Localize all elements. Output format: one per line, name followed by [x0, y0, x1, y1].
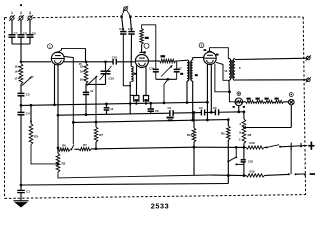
wire R16 bottom lead: [193, 142, 195, 175]
inductor output transformer primary: [229, 59, 231, 81]
svg-text:B: B: [239, 131, 241, 135]
resistor R15 value label blob: [275, 98, 279, 100]
wire C10 to R4: [86, 83, 106, 85]
svg-text:C8: C8: [155, 109, 159, 113]
tube V1 (RF amplifier): [51, 52, 64, 65]
resistor R12 value label blob: [247, 98, 251, 100]
node junction C14/bus2: [85, 113, 88, 116]
node switch S1 contact b: [279, 146, 281, 148]
node junction primary bottom/right leg: [228, 90, 231, 93]
capacitor C22 (smoothing): [241, 159, 246, 161]
node junction V3 middle leg/bus2: [210, 111, 213, 114]
resistor R10 grid resistor: [140, 28, 144, 44]
wire terminal 3 to C9: [29, 20, 31, 34]
capacitor C8: [18, 34, 25, 36]
node junction phono/coil merge: [129, 85, 131, 87]
svg-text:R9: R9: [221, 132, 225, 136]
capacitor C6 (series): [214, 109, 216, 115]
inductor IF transformer T1 secondary: [191, 60, 193, 81]
wire R1 wiper arm: [22, 78, 31, 86]
tube V3 (output): [204, 52, 217, 65]
svg-text:14: 14: [90, 89, 93, 93]
wire C11 link: [129, 104, 131, 114]
wire terminal 1 to C7: [11, 20, 13, 34]
svg-text:17: 17: [14, 77, 18, 81]
wire plate line from V1: [64, 61, 113, 63]
wire negative rail segment c: [296, 173, 305, 175]
wire V2 leg right: [145, 66, 147, 96]
wire padder box bottom: [156, 78, 177, 80]
capacitor C13: [104, 107, 110, 109]
svg-text:R8: R8: [248, 133, 252, 137]
wire C8 down: [20, 37, 22, 44]
resistor R4 tuning potentiometer: [84, 64, 88, 84]
capacitor C1: [17, 189, 25, 191]
wire phono jack right prong: [127, 10, 130, 16]
node switch S2 contact a: [288, 173, 290, 175]
wire T1 secondary top lead: [193, 57, 205, 60]
wire terminal 2 to C8: [20, 20, 22, 34]
capacitor C19 (padder left): [155, 61, 157, 69]
wire lamp down: [290, 105, 292, 128]
svg-text:S: S: [239, 66, 241, 70]
svg-text:C18: C18: [112, 55, 117, 59]
svg-text:C6: C6: [213, 106, 217, 110]
wire padder box bottom stub: [164, 79, 168, 103]
node heater switch contact: [70, 148, 72, 150]
wire bus 2 middle segment: [173, 112, 201, 114]
capacitor C10 (variable): [101, 70, 111, 72]
node diode designator circle: [237, 92, 241, 96]
node terminal 3 (earth socket): [28, 16, 32, 20]
wire R10 to V2 top cap: [141, 44, 143, 52]
node phono jack symbol: [124, 7, 128, 11]
resistor R11 value label blob: [161, 55, 166, 57]
svg-text:R7: R7: [83, 143, 87, 147]
node junction padder bottom: [167, 78, 170, 81]
wire R1 to C2: [20, 84, 22, 93]
resistor R2: [56, 154, 60, 173]
resistor R16: [192, 128, 196, 142]
node R4 wiper contact: [96, 76, 98, 78]
resistor R19 negative lead: [246, 174, 265, 177]
node switch S2 contact c: [304, 174, 306, 176]
wire R4 wiper arm: [87, 77, 97, 86]
capacitor C16: [120, 31, 126, 33]
svg-text:C9: C9: [32, 31, 36, 35]
svg-text:R2: R2: [62, 162, 66, 166]
node junction V1 leg/heater bus: [57, 147, 60, 150]
wire chassis shield border (dashed, right side): [303, 17, 305, 195]
resistor R6 bracket: [143, 96, 148, 102]
wire bus 2 right segment: [219, 111, 244, 113]
wire C22 top feed: [243, 147, 245, 159]
svg-text:A: A: [239, 122, 241, 126]
wire C9 down: [29, 37, 31, 44]
wire bus 2 segment: [205, 111, 216, 113]
node junction R8 top: [243, 110, 246, 113]
capacitor C5 (series): [200, 110, 202, 116]
wire V2 anode to padder box: [149, 60, 156, 62]
wire T1 core left: [188, 62, 190, 80]
wire V3 cathode to transformer bottom: [216, 62, 229, 80]
node V3 label blob left: [204, 49, 207, 51]
wire C17 down to oscillator coil: [130, 34, 132, 66]
resistor R13: [255, 100, 265, 103]
svg-text:R16: R16: [187, 133, 193, 137]
svg-text:R3: R3: [34, 135, 38, 139]
wire phono jack left prong: [122, 10, 125, 16]
wire output transformer core: [230, 60, 232, 79]
svg-text:2533: 2533: [151, 202, 169, 211]
wire C13 top stub: [106, 104, 108, 108]
wire positive rail to switch: [264, 146, 266, 148]
wire speaker line top: [235, 58, 308, 59]
capacitor C2: [18, 92, 25, 94]
wire heater bus segment b: [91, 147, 194, 149]
wire V3 top cap lead: [210, 48, 229, 59]
wire R8 bottom lead: [243, 144, 245, 148]
wire C10 top stub: [105, 62, 107, 71]
wire R8 top lead: [243, 112, 245, 119]
wire chassis shield border (dashed, top-left segment): [5, 17, 9, 19]
wire R7 top lead: [95, 122, 97, 127]
node V1 designator circle: [48, 44, 53, 49]
node V2 grid cap designator circle: [144, 43, 149, 48]
node V2 top cap: [140, 51, 144, 53]
svg-text:C10: C10: [109, 77, 115, 81]
wire C12 top stub: [150, 103, 152, 109]
wire chain to lamp: [284, 101, 289, 103]
wire V3 right leg to diode line: [215, 64, 230, 92]
wire V3 left leg: [206, 64, 208, 120]
wire inter-rail link: [290, 147, 292, 174]
node speaker terminal bottom: [307, 78, 311, 82]
node junction C22/negative rail: [243, 174, 246, 177]
resistor R18 positive lead: [246, 146, 264, 149]
capacitor C4: [18, 111, 25, 113]
wire top-cap feed down: [85, 48, 87, 61]
node junction R9 top: [227, 118, 230, 121]
wire switch S3 arm: [228, 158, 235, 162]
wire grid node to V1: [21, 61, 51, 63]
capacitor C21 (padder right): [176, 61, 178, 69]
wire V1 heater leg: [57, 64, 59, 154]
node junction C11 hang: [129, 102, 132, 105]
wire V1 cathode leg: [54, 64, 56, 105]
wire output transformer top link: [227, 58, 230, 60]
node aerial dot above terminal 2: [20, 4, 22, 6]
resistor R14 value label blob: [265, 98, 269, 100]
wire V2 leg left: [136, 66, 138, 96]
node junction R16/heater bus: [193, 146, 196, 149]
wire R16 top lead: [193, 113, 195, 129]
wire C2 to AVC bus: [20, 96, 22, 106]
inductor T1 winding label 10: [180, 73, 183, 75]
resistor R17 heater dropper: [79, 148, 91, 151]
wire T1 core right: [190, 62, 192, 80]
svg-text:12: 12: [110, 107, 113, 111]
wire output transformer primary bottom: [228, 80, 230, 92]
wire padder trimmer arrow: [161, 66, 172, 77]
wire chassis shield border (dashed, bottom side): [5, 195, 306, 199]
node junction V1 leg/AVC bus: [53, 103, 56, 106]
node R1 wiper contact: [30, 77, 32, 79]
node battery negative symbol: [310, 173, 315, 175]
svg-text:R19: R19: [250, 169, 255, 173]
wire tap line to C22 lead: [236, 163, 244, 165]
resistor R7: [94, 127, 98, 142]
resistor R10 top lead: [142, 25, 156, 61]
inductor L2 label blob: [134, 73, 137, 75]
wire C12 bottom stub: [150, 111, 152, 113]
wire R5 foot lead: [135, 102, 137, 104]
node switch S3 contact: [235, 156, 237, 158]
wire switch S1 arm: [267, 145, 279, 148]
capacitor C3 (series): [169, 110, 171, 116]
node terminal 2 (aerial socket): [19, 16, 23, 20]
svg-text:C22: C22: [248, 159, 253, 163]
capacitor C14: [83, 91, 89, 93]
node speaker terminal top: [307, 56, 311, 60]
resistor R8: [242, 119, 246, 144]
svg-text:C: C: [239, 137, 241, 141]
wire C14 down: [85, 95, 87, 115]
node junction R16 top: [193, 111, 196, 114]
wire chassis shield border (dashed, left side): [4, 18, 6, 199]
inductor output transformer secondary: [233, 59, 235, 81]
svg-text:R7: R7: [99, 133, 103, 137]
resistor R14: [265, 100, 275, 103]
node R3 upper contact: [30, 120, 32, 122]
wire padder box top-left: [156, 60, 160, 62]
wire negative rail segment: [265, 174, 289, 175]
tube V4 detector diode: [235, 98, 243, 106]
wire C16 down then right: [123, 34, 130, 85]
wire C10 trimmer arrow: [100, 66, 112, 80]
capacitor C12: [148, 108, 154, 110]
node junction plate line/padder: [85, 60, 88, 63]
wire V1 top cap lead: [58, 48, 86, 52]
node junction C13 top: [105, 103, 108, 106]
resistor R6 label blob: [144, 99, 148, 101]
resistor R11: [160, 59, 176, 63]
svg-text:R18: R18: [250, 141, 255, 145]
wire R8 tap arrow: [243, 126, 246, 128]
node junction diode drop: [237, 111, 240, 114]
wire R4 bottom: [85, 84, 87, 93]
resistor R10 value label blob: [145, 37, 149, 39]
wire diode left feed: [229, 92, 235, 102]
node battery positive symbol: [308, 145, 314, 147]
capacitor C18 (series): [112, 59, 114, 65]
wire heater bus to positive rail: [194, 146, 246, 148]
resistor R1 volume potentiometer: [19, 64, 23, 85]
wire R6 foot lead: [145, 102, 147, 104]
svg-text:C19: C19: [149, 66, 154, 70]
wire heater bus segment a: [75, 148, 80, 150]
resistor R6a heater dropper: [59, 148, 71, 151]
node AVC annotation blob line1: [167, 117, 174, 119]
wire C4 down to ground bus: [20, 115, 22, 185]
wire AVC bus: [21, 102, 207, 105]
svg-text:15: 15: [14, 65, 18, 69]
svg-text:R6: R6: [62, 144, 66, 148]
svg-text:C2: C2: [26, 92, 30, 96]
node junction padder/AVC bus: [163, 102, 166, 105]
wire T1 primary bottom lead: [186, 81, 188, 103]
capacitor C17: [128, 31, 134, 33]
node phono terminal left: [120, 16, 122, 18]
wire V1 anode line and wave-switch feed: [64, 56, 73, 144]
node junction C10 top: [104, 60, 107, 63]
node junction R3 top on AVC bus: [30, 104, 33, 107]
wire ground bus: [21, 184, 228, 186]
wire T1 primary top lead: [177, 59, 187, 62]
wire V3 middle leg: [210, 64, 212, 112]
svg-text:19: 19: [80, 70, 84, 74]
svg-text:C8: C8: [23, 31, 27, 35]
wire R2 bottom corner: [58, 172, 212, 178]
node junction AVC bus left end: [20, 104, 23, 107]
resistor R5 bracket: [134, 96, 139, 102]
ground symbol: [14, 200, 29, 202]
lamp LP1 dial lamp: [289, 99, 295, 105]
resistor R13 value label blob: [256, 98, 260, 100]
wire wiper feed down: [95, 77, 97, 123]
wire chassis shield border (dashed, top middle segment): [33, 17, 118, 18]
resistor R9: [227, 126, 231, 140]
node switch S3 pivot: [227, 160, 229, 162]
node junction ground bus left: [20, 184, 23, 187]
svg-text:18: 18: [80, 65, 84, 69]
wire bus 2 (detector line): [58, 113, 170, 115]
node switch S2 contact b: [295, 173, 297, 175]
node tap contact on C22 lead: [235, 163, 237, 165]
node junction V3 leg/bus3: [206, 119, 209, 122]
wire diode to resistor chain: [243, 101, 246, 103]
node phono terminal right: [129, 16, 131, 18]
wire lamp return to R8 tap: [247, 127, 292, 129]
wire plate line to V2 grid: [116, 61, 135, 63]
node battery link tick top: [290, 143, 292, 151]
node V1 top cap: [56, 52, 60, 54]
wire diode bottom lead: [238, 106, 240, 112]
capacitor C9: [27, 34, 34, 36]
node junction T1/AVC bus: [186, 101, 189, 104]
node V2 top cap junction blob: [143, 51, 146, 54]
svg-text:16: 16: [14, 70, 18, 74]
node junction R3/R2 tap: [56, 163, 59, 166]
node junction bus3 left end: [72, 121, 75, 124]
node junction R9/negative rail: [227, 174, 230, 177]
svg-text:2: 2: [20, 11, 22, 15]
node junction R7/heater bus: [95, 147, 98, 150]
inductor T1 winding label 11: [195, 74, 198, 76]
node junction S3/positive rail: [235, 146, 238, 149]
inductor IF transformer T1 primary: [187, 60, 189, 81]
wire aerial join to grid node: [20, 44, 22, 62]
wire C22 bottom lead: [243, 162, 245, 176]
wire bus 3 (grid return): [73, 120, 228, 123]
node V3 designator circle: [199, 43, 204, 48]
node junction R8/positive rail: [243, 146, 246, 149]
wire T1 secondary bottom lead: [192, 81, 194, 120]
node junction V1 leg/bus2: [57, 114, 60, 117]
wire C10 bottom stub: [105, 74, 107, 85]
node switch S1 contact a: [266, 146, 268, 148]
node junction T1/bus3: [191, 119, 194, 122]
wire padder box top-right: [176, 60, 177, 62]
wire AVC bus to C4: [20, 105, 22, 112]
resistor R5 label blob: [135, 99, 139, 101]
wire S3 contact lead: [235, 147, 237, 157]
node diode electrode label left: [233, 106, 235, 108]
node diode electrode label right: [243, 106, 245, 108]
node junction V3 leg/AVC bus end: [206, 101, 209, 104]
wire phono left to C16: [122, 18, 124, 32]
wire R3 top lead: [30, 105, 32, 123]
wire heater switch arm: [71, 145, 74, 150]
tube V2 (frequency changer): [135, 55, 148, 68]
wire R3 down and right: [31, 145, 58, 164]
node lamp designator circle: [289, 93, 293, 97]
wire C1 top stub: [20, 185, 22, 190]
wire positive rail after switch: [280, 146, 307, 147]
wire jog into resistor block: [130, 94, 134, 96]
capacitor C7: [9, 34, 16, 36]
resistor R12: [246, 100, 256, 103]
svg-text:20: 20: [80, 78, 84, 82]
wire phono right to C17: [130, 18, 131, 32]
wire speaker line bottom: [235, 79, 308, 81]
wire C7 down: [11, 37, 13, 44]
resistor R15: [274, 100, 284, 103]
wire chassis shield border (dashed, top right segment): [135, 16, 303, 19]
node terminal 1 (aerial socket): [10, 16, 14, 20]
wire R9 top lead: [227, 120, 229, 126]
svg-text:C17: C17: [128, 27, 134, 31]
resistor R3: [29, 124, 33, 145]
node junction C12 top: [149, 102, 152, 105]
svg-text:1: 1: [11, 11, 13, 15]
wire joining aerial capacitors: [12, 43, 30, 45]
node V3 label blob right: [216, 54, 219, 56]
svg-text:3: 3: [29, 11, 31, 15]
wire negative rail step: [212, 174, 246, 177]
node V3 top cap: [207, 50, 211, 52]
svg-text:C4: C4: [26, 111, 30, 115]
wire L2 down to AVC bus: [129, 82, 131, 104]
svg-text:C5: C5: [199, 106, 203, 110]
node junction transformer/diode line: [228, 90, 231, 93]
node junction R5 foot: [135, 102, 137, 104]
svg-text:C2: C2: [178, 66, 182, 70]
node junction R6 foot: [145, 102, 147, 104]
node terminal tick positive: [300, 143, 302, 146]
node AVC annotation blob line2: [168, 119, 173, 121]
svg-text:C1: C1: [26, 189, 30, 193]
svg-text:C16: C16: [119, 27, 125, 31]
wire R7 bottom lead: [95, 142, 97, 149]
wire R9 bottom lead: [227, 140, 229, 184]
svg-text:C3: C3: [168, 106, 172, 110]
node junction grid node: [20, 60, 23, 63]
inductor L2 oscillator coil: [131, 66, 133, 81]
node junction R7 top: [95, 121, 98, 124]
wire C1 to ground: [20, 193, 22, 201]
wire C13 bottom stub: [106, 110, 108, 114]
